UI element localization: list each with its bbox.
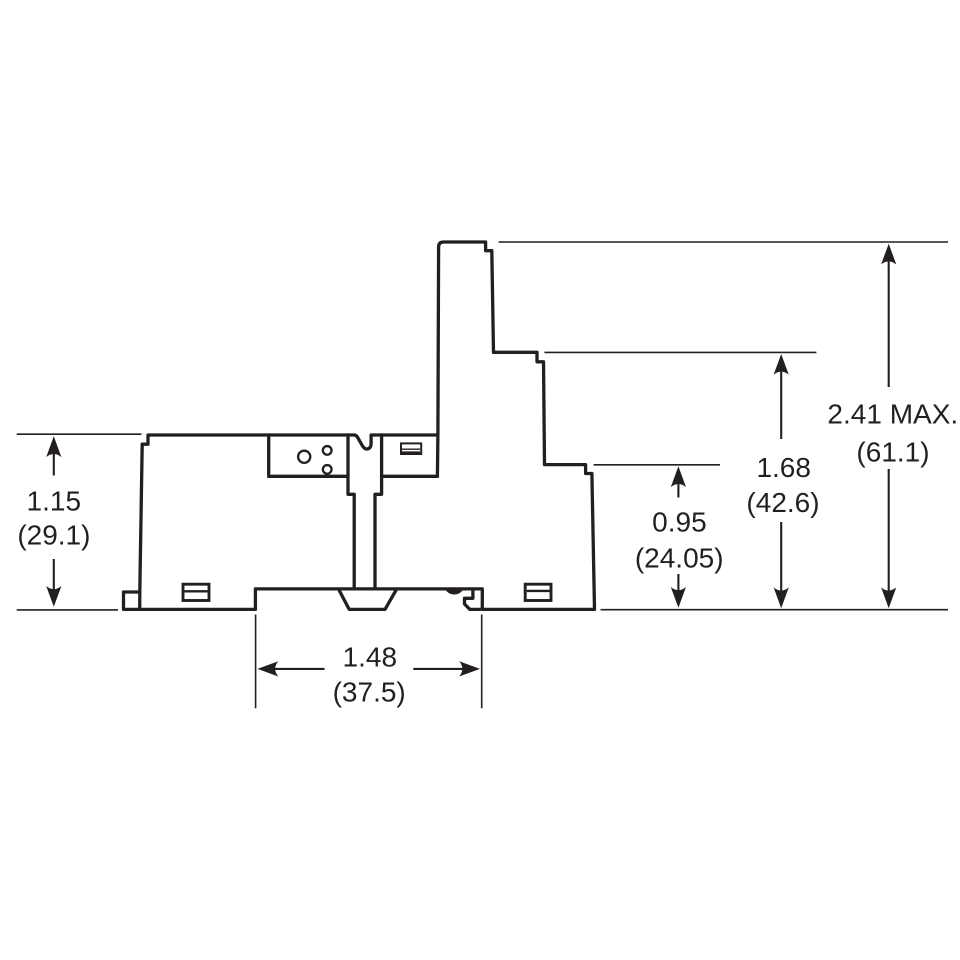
svg-text:(29.1): (29.1) (17, 520, 90, 551)
svg-text:1.48: 1.48 (343, 642, 398, 673)
arrowhead 0.95 up (671, 466, 686, 487)
dim 0.95 shafts (677, 480, 679, 594)
right foot hook detail (465, 591, 482, 610)
large circle (298, 451, 310, 463)
dim 1.15 shafts (53, 450, 55, 592)
arrowhead 0.95 down (671, 587, 686, 608)
right latch window (525, 584, 551, 600)
extension line 1.48 left (255, 615, 257, 709)
arrowhead 1.15 down (46, 586, 61, 607)
extension line tower top (499, 241, 948, 243)
body outline (124, 242, 595, 609)
arrowhead 2.41 down (881, 587, 896, 608)
svg-text:(37.5): (37.5) (333, 676, 406, 707)
small circle bottom (323, 465, 332, 474)
DIN rail clip trapezoid (339, 589, 397, 609)
center module box (267, 433, 438, 476)
svg-text:(61.1): (61.1) (856, 436, 929, 467)
arrowhead 1.48 right (459, 661, 480, 676)
svg-text:(24.05): (24.05) (635, 542, 724, 573)
arrowhead 1.15 up (46, 436, 61, 457)
left edge lower segment (138, 592, 141, 609)
dim 1.48 shafts (272, 668, 466, 670)
extension line bottom left (17, 609, 118, 611)
extension line step2 (544, 351, 816, 353)
extension line 1.48 right (481, 615, 483, 709)
arrowhead 2.41 up (881, 244, 896, 265)
arrowhead 1.68 down (774, 587, 789, 608)
dome bump (445, 588, 464, 594)
plunger collar and stem left (348, 433, 354, 587)
arrowhead 1.48 left (258, 661, 279, 676)
vent rectangle (401, 443, 421, 454)
extension line step3 (594, 464, 720, 466)
small circle top (323, 446, 332, 455)
arrowhead 1.68 up (774, 354, 789, 375)
left latch window (183, 584, 209, 600)
svg-text:1.15: 1.15 (27, 485, 82, 516)
extension line top left (17, 433, 142, 435)
plunger collar and stem right (375, 433, 382, 587)
dim 1.68 shafts (780, 368, 782, 594)
extension line bottom right (601, 609, 949, 611)
svg-text:1.68: 1.68 (756, 452, 811, 483)
svg-text:2.41 MAX.: 2.41 MAX. (827, 398, 958, 429)
svg-text:(42.6): (42.6) (746, 487, 819, 518)
dim 2.41 shafts (888, 258, 890, 594)
svg-text:0.95: 0.95 (652, 507, 707, 538)
tower left edge lower segment (436, 433, 440, 477)
